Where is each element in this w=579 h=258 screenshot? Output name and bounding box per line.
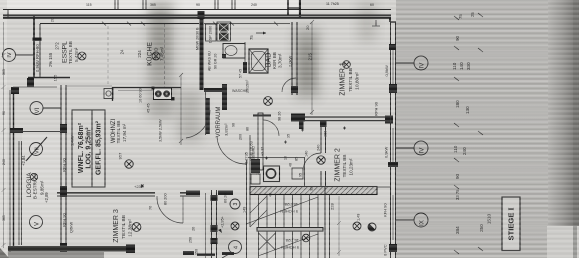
node: circled storey mark IV (left) — [3, 49, 35, 62]
svg-text:9 HÖHEN: 9 HÖHEN — [280, 209, 298, 214]
stairs: upper flight treads — [246, 160, 330, 258]
svg-text:1,49: 1,49 — [357, 214, 361, 221]
svg-text:WASCHB: WASCHB — [232, 89, 248, 93]
page corner mark bottom left — [0, 248, 9, 258]
svg-text:TEXTIL BB: TEXTIL BB — [68, 41, 73, 64]
svg-text:80 200: 80 200 — [224, 191, 228, 203]
svg-text:90: 90 — [455, 35, 460, 41]
symbol: lamp WOHNZI — [125, 160, 133, 168]
room label: WOHNZI — [111, 119, 127, 160]
label: 2,0kW beside wall — [288, 55, 293, 67]
wall: wc top line and right boundary — [248, 135, 305, 194]
symbol: lamp ESSPL — [78, 52, 86, 60]
svg-text:WNFL. 76,68m²: WNFL. 76,68m² — [78, 122, 85, 173]
dimension: bottom small numbers — [189, 237, 199, 255]
wall: ESSPL west wall (double with sill) — [33, 16, 200, 78]
svg-text:57 45: 57 45 — [239, 69, 243, 78]
svg-text:330: 330 — [466, 62, 471, 70]
label: texts above stairs — [245, 146, 256, 166]
svg-text:0 PVC: 0 PVC — [383, 244, 388, 256]
node: circled section mark VII with arrow — [26, 137, 47, 161]
fixture: stove/sink unit — [152, 87, 175, 101]
svg-text:AB WAS KU: AB WAS KU — [208, 51, 212, 71]
wall: step from ESSPL wall to loggia — [27, 78, 70, 88]
wall: ZIMMER2 west wall — [320, 121, 327, 187]
svg-text:45 45: 45 45 — [147, 103, 151, 113]
svg-text:240: 240 — [462, 147, 467, 155]
wall: right exterior wall — [388, 17, 398, 258]
wall: BAD east wall (hatched) — [291, 22, 298, 95]
symbol: lamp hall — [317, 156, 325, 164]
svg-text:+3,27: +3,27 — [261, 147, 265, 156]
svg-text:76: 76 — [149, 206, 153, 210]
svg-text:365: 365 — [2, 69, 6, 75]
svg-text:3,5kW 2,5kW: 3,5kW 2,5kW — [159, 119, 163, 142]
wall: ZIMMER3 east wall — [206, 190, 218, 258]
svg-text:3,70m²: 3,70m² — [278, 53, 283, 68]
svg-text:40: 40 — [269, 193, 273, 197]
wall: stub below Z1 wall — [299, 121, 304, 129]
svg-text:215: 215 — [308, 53, 313, 61]
svg-text:2% 155: 2% 155 — [48, 52, 53, 67]
fixture: kitchen counter — [66, 86, 181, 101]
door: vorraum entry arc — [186, 110, 210, 138]
door: apartment entry arc — [217, 136, 246, 164]
svg-text:90: 90 — [455, 173, 460, 179]
svg-text:RPH 90: RPH 90 — [374, 101, 379, 116]
label: small texts below shafts — [208, 51, 218, 71]
wall: loggia outer wall — [10, 87, 61, 252]
room label: ESSPL — [62, 41, 80, 64]
svg-text:40: 40 — [289, 163, 293, 167]
svg-text:IV: IV — [419, 147, 426, 154]
svg-text:90: 90 — [196, 3, 200, 7]
svg-text:24: 24 — [120, 49, 125, 54]
svg-text:TEXTIL BB: TEXTIL BB — [116, 121, 121, 144]
label: lower stair flight text — [281, 238, 299, 250]
svg-text:ZIMMER 2: ZIMMER 2 — [335, 148, 342, 182]
svg-text:+2,89: +2,89 — [44, 192, 49, 203]
room label: ZIMMER 3 — [113, 209, 134, 243]
svg-text:16,7/28: 16,7/28 — [285, 238, 299, 243]
svg-text:7,45m²: 7,45m² — [160, 46, 165, 61]
svg-text:60: 60 — [370, 3, 374, 7]
svg-text:V: V — [35, 222, 41, 226]
label: window labels on right wall — [374, 65, 390, 256]
svg-text:240: 240 — [317, 145, 321, 151]
wall: bottom edge fragments — [183, 251, 234, 256]
svg-text:GEF.FL. 85,93m²: GEF.FL. 85,93m² — [96, 120, 103, 175]
dimension: left edge chain — [2, 22, 6, 248]
svg-text:10 60 90: 10 60 90 — [139, 88, 143, 103]
label: texts near vorraum — [249, 111, 328, 175]
svg-text:IV: IV — [7, 52, 13, 58]
svg-text:957: 957 — [118, 152, 123, 159]
svg-text:25: 25 — [470, 12, 475, 17]
symbol: lamp hall right 1 — [353, 222, 361, 230]
svg-text:0,9kW: 0,9kW — [384, 65, 389, 77]
node: circled 3 — [230, 199, 240, 209]
wall: loggia/bottom wall — [8, 245, 135, 258]
dimension: right dimension chain — [454, 13, 483, 254]
svg-text:TEXTIL BB: TEXTIL BB — [342, 155, 347, 178]
svg-text:RFH 90: RFH 90 — [62, 157, 67, 172]
svg-text:140: 140 — [459, 62, 464, 70]
room label: KUECHE — [146, 42, 165, 66]
svg-text:+2,95+: +2,95+ — [221, 215, 225, 228]
svg-text:365: 365 — [150, 3, 156, 7]
fixture: shaft boxes DSP — [206, 22, 231, 41]
svg-text:0,9kW: 0,9kW — [384, 146, 389, 158]
svg-text:1,4kW: 1,4kW — [71, 135, 75, 146]
svg-text:240: 240 — [2, 159, 6, 165]
dimension: vertical line right of counter — [179, 73, 183, 145]
svg-text:20: 20 — [192, 227, 196, 231]
svg-text:90: 90 — [2, 111, 6, 115]
svg-text:10: 10 — [284, 156, 288, 160]
label: +232 marker and dims — [134, 184, 196, 231]
svg-text:80: 80 — [246, 127, 250, 131]
svg-text:+2,84: +2,84 — [21, 155, 26, 166]
wall: wc north wall piece — [253, 113, 271, 170]
label: +2,95 near stair wall — [218, 215, 225, 233]
label: RFH 90 on west wall — [62, 157, 67, 172]
svg-text:110: 110 — [453, 145, 458, 153]
svg-text:VII: VII — [35, 147, 41, 154]
dimension line below top wall — [102, 22, 290, 26]
fixture: small hob at counter left — [104, 89, 113, 99]
svg-text:272: 272 — [55, 42, 60, 50]
symbol: lamp hall right 2 (half filled) — [368, 223, 376, 231]
svg-text:10,80m²: 10,80m² — [355, 72, 361, 90]
wall: kitchen/shaft wall x199-204 — [198, 11, 205, 90]
svg-text:110: 110 — [452, 62, 457, 70]
svg-text:140: 140 — [305, 151, 309, 157]
stairs: landing hatched band — [250, 187, 377, 195]
wire: terrace top edge — [13, 86, 57, 88]
room label: BAD — [264, 52, 283, 69]
svg-text:3: 3 — [233, 203, 239, 206]
svg-text:KÜCHE: KÜCHE — [146, 42, 154, 66]
wall: WOHNZI / ZIMMER3 wall — [57, 193, 200, 196]
svg-text:365: 365 — [2, 215, 6, 221]
wall: bottom of BAD/shaft zone — [204, 42, 248, 93]
svg-text:80 200: 80 200 — [164, 193, 168, 205]
node: circled IV right top — [396, 56, 428, 70]
wire: landing top line to right wall — [377, 186, 391, 188]
dimension: 215 in ZIMMER1 — [305, 20, 314, 115]
wall: vorraum west wall x205-210 — [206, 90, 210, 135]
svg-text:VI: VI — [35, 107, 41, 113]
svg-text:STIEGE I: STIEGE I — [507, 208, 516, 241]
wall: balcony divider stubs above facade — [115, 0, 235, 10]
svg-text:90: 90 — [232, 123, 236, 127]
symbol: lamp VORRAUM — [264, 97, 273, 106]
svg-text:3,82m²: 3,82m² — [224, 123, 229, 136]
svg-text:75: 75 — [249, 35, 254, 40]
fixture: bathtub — [249, 49, 268, 73]
svg-text:95: 95 — [299, 173, 303, 177]
symbol: lamp ZIMMER3 — [132, 223, 141, 232]
wall: top pillar at x288-300 — [288, 0, 300, 17]
svg-text:MGW 20/30 B: MGW 20/30 B — [196, 27, 200, 50]
label: dims in hall — [330, 203, 361, 221]
door: wc door arc — [263, 120, 279, 136]
room: loggia light interior — [22, 133, 61, 245]
svg-text:224: 224 — [137, 50, 142, 58]
fixture: wc block near stairs — [251, 159, 303, 184]
svg-text:33 75: 33 75 — [455, 189, 460, 200]
svg-text:DSP 2000: DSP 2000 — [209, 26, 213, 43]
label: scattered small annotations center — [232, 123, 314, 197]
wall: west wall of WOHNZI (x61) with window — [60, 85, 67, 258]
svg-text:ZIMMER 3: ZIMMER 3 — [113, 209, 120, 243]
dimension: vertical line right of stairs — [337, 196, 341, 256]
svg-text:10,23m²: 10,23m² — [349, 158, 354, 175]
svg-text:200: 200 — [239, 134, 243, 140]
label: bath small texts — [239, 69, 250, 93]
svg-text:1510: 1510 — [487, 213, 492, 224]
svg-text:180: 180 — [455, 100, 460, 108]
svg-text:35: 35 — [287, 134, 291, 138]
node: circled storey mark VI — [30, 102, 61, 115]
svg-text:0,9kW RFH-90: 0,9kW RFH-90 — [35, 44, 40, 72]
node: circled 4 — [222, 241, 242, 258]
label: 1,4kW near door — [71, 135, 75, 146]
stairs: mid landing bar — [257, 228, 323, 232]
svg-text:20: 20 — [305, 25, 310, 30]
svg-text:TEXTIL BB: TEXTIL BB — [348, 68, 354, 92]
svg-text:HERD: HERD — [154, 47, 159, 61]
svg-text:SB/BRD: SB/BRD — [252, 146, 256, 160]
svg-text:11 7h25: 11 7h25 — [326, 2, 339, 6]
wire: dashed line left kitchen — [107, 26, 109, 86]
wall: vorraum/bad black bar — [222, 84, 227, 110]
svg-text:ZIMMER 1: ZIMMER 1 — [340, 62, 347, 96]
symbol: wall hook in ZIMMER1 top — [372, 20, 380, 26]
symbol: lamp ZIMMER1 — [343, 61, 351, 69]
svg-text:LOG. 9,25m²: LOG. 9,25m² — [86, 127, 93, 169]
svg-text:228: 228 — [330, 203, 335, 210]
svg-text:VORRAUM: VORRAUM — [216, 107, 222, 138]
svg-text:KER BB: KER BB — [272, 52, 277, 69]
room label: ZIMMER 1 — [340, 62, 361, 96]
svg-text:250: 250 — [479, 224, 484, 232]
svg-text:KFH 90: KFH 90 — [383, 203, 388, 217]
symbol: lamp below mid landing — [302, 234, 310, 242]
svg-text:155: 155 — [53, 74, 58, 81]
svg-text:Q6kW: Q6kW — [69, 222, 74, 233]
label: dims 274 224 in ESSPL — [50, 17, 143, 81]
door: WOHNZI to ZIMMER3 — [157, 196, 183, 223]
svg-text:9 HÖHEN: 9 HÖHEN — [281, 245, 299, 250]
door: BAD door bottom — [282, 78, 296, 92]
label: tiny top edge text — [326, 2, 339, 6]
svg-text:75: 75 — [458, 14, 463, 19]
symbol: lamp KUECHE left — [152, 52, 160, 60]
node: circled storey mark V — [30, 216, 43, 229]
svg-text:17,94 m²: 17,94 m² — [122, 123, 127, 142]
label: 75 with arrow — [249, 32, 266, 41]
svg-text:115: 115 — [86, 3, 92, 7]
dimension: small texts near counter — [139, 88, 163, 142]
table: WNFL/LOG/GEF.FL areas — [72, 110, 105, 187]
svg-text:98 26: 98 26 — [278, 111, 282, 121]
svg-text:TEXTIL BB: TEXTIL BB — [121, 215, 127, 239]
wire: dashed reference line in kitchen — [164, 24, 166, 87]
label: 2% — [48, 52, 53, 67]
svg-text:IX: IX — [419, 220, 426, 226]
dimension: top edge numbers — [86, 3, 374, 7]
svg-text:IV: IV — [419, 62, 426, 69]
wall: ZIMMER1 / VORRAUM wall y117-121 — [291, 114, 393, 124]
wall: piece above Z3 east wall — [186, 191, 233, 204]
svg-text:240: 240 — [251, 3, 257, 7]
svg-text:33: 33 — [310, 187, 314, 191]
svg-text:2,0kW: 2,0kW — [288, 55, 293, 67]
scan smudge streaks — [148, 0, 376, 248]
svg-text:250: 250 — [189, 237, 193, 243]
stairs: lower flight treads — [258, 232, 318, 258]
label: STIEGE I box — [502, 197, 520, 251]
svg-text:16,7/28: 16,7/28 — [284, 202, 298, 207]
label: stair flight text — [280, 202, 298, 214]
room label: LOGGIA — [21, 155, 49, 203]
room label: VORRAUM — [216, 107, 229, 138]
svg-text:149: 149 — [243, 207, 247, 213]
svg-text:20: 20 — [50, 17, 55, 22]
wire: top facade outer line — [3, 10, 391, 19]
symbol: lamp loggia — [30, 173, 37, 180]
door: ZIMMER2 door arc — [303, 153, 321, 171]
fixture: washbasin — [222, 44, 245, 59]
wall: top exterior wall band — [3, 15, 391, 17]
node: circled IV right middle — [396, 141, 428, 155]
svg-text:384: 384 — [455, 226, 460, 234]
svg-text:RFH 90: RFH 90 — [62, 212, 67, 227]
room label: ZIMMER 2 — [335, 148, 354, 182]
svg-text:130: 130 — [465, 106, 470, 114]
symbol: lamp left of stairs — [231, 222, 239, 230]
svg-text:96 GR 20: 96 GR 20 — [214, 54, 218, 69]
label: 0,9kW RFH-90 on ESSPL wall — [35, 44, 40, 72]
node: circled IX right bottom — [396, 213, 428, 227]
svg-text:4: 4 — [234, 246, 240, 249]
